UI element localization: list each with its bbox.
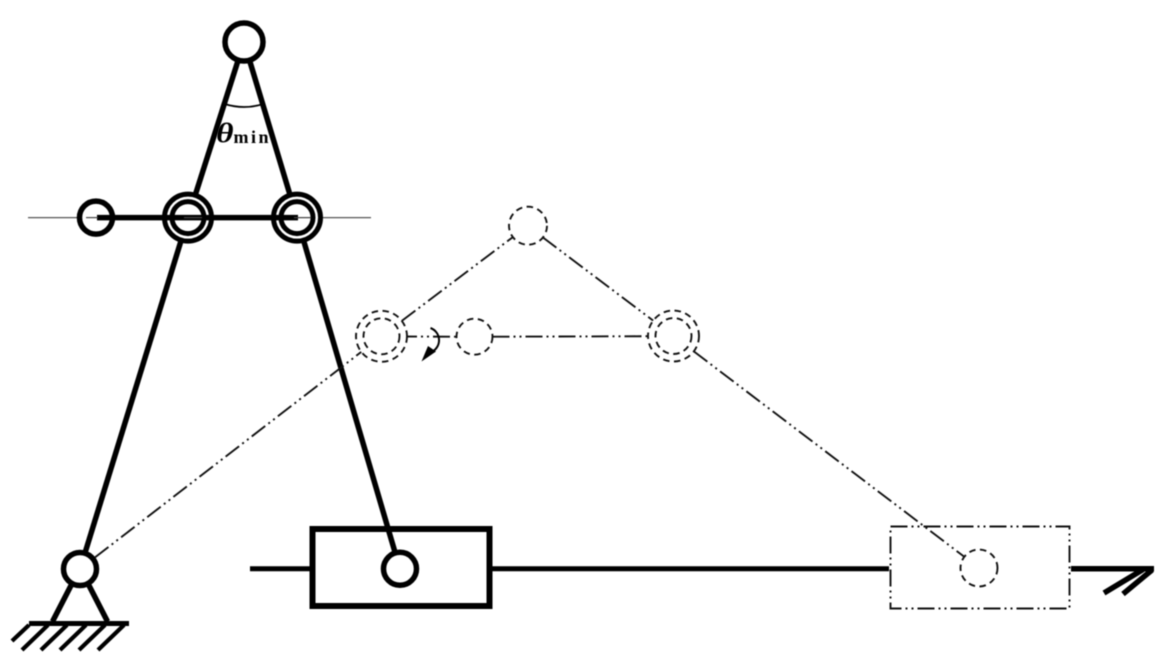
phantom slider pin joint circle — [961, 550, 998, 587]
joint L: small left joint circle — [80, 201, 113, 234]
phantom link: horizontal bar middle joint to right double joint — [493, 335, 656, 338]
link: right upper leg (apex to right double joint) — [250, 60, 291, 195]
link: left lower leg (left double joint to ground pivot) — [86, 241, 182, 552]
link: left upper leg (apex to left double joint) — [195, 60, 238, 196]
ground base line — [29, 621, 129, 626]
rotation arrow arc — [431, 328, 440, 352]
ground pivot joint circle — [64, 553, 97, 586]
phantom link: phantom left double joint to phantom apex — [402, 237, 513, 321]
slider rail middle segment — [492, 566, 889, 571]
slider block rectangle — [313, 529, 490, 606]
rotation arrow head — [422, 346, 437, 362]
link: right lower leg (right double joint to slider pin) — [304, 241, 395, 552]
slider pin joint circle — [384, 552, 417, 585]
ground pivot triangle right side — [89, 586, 108, 622]
right wall hatch stroke 2 — [1123, 570, 1152, 594]
phantom link: horizontal bar left double joint to middle joint — [400, 336, 457, 338]
ground pivot triangle left side — [53, 586, 72, 622]
center-line dash in small joint — [86, 217, 98, 219]
phantom slider block rectangle — [891, 527, 1070, 609]
phantom right double joint — [648, 311, 699, 362]
phantom link: right double joint to phantom slider pin — [694, 351, 965, 556]
center-line dash in right double joint — [294, 217, 311, 219]
angle label theta — [216, 118, 234, 149]
phantom link: ground pivot to phantom left double joint — [95, 352, 361, 558]
right wall hatch stroke 1 — [1104, 570, 1143, 594]
joint B1: left double revolute joint — [165, 194, 212, 241]
ground hatching — [12, 625, 124, 650]
angle arc at apex — [224, 104, 262, 107]
slider rail left segment — [250, 566, 310, 571]
phantom link: phantom apex to phantom right double joint — [543, 237, 653, 320]
horizontal center line through top joints — [28, 217, 371, 219]
center-line dash in left double joint — [184, 217, 202, 219]
phantom left double joint — [356, 311, 407, 362]
joint B2: right double revolute joint — [274, 194, 321, 241]
slider rail right segment — [1071, 566, 1154, 572]
phantom apex joint circle — [509, 207, 547, 245]
angle label min subscript — [234, 127, 272, 148]
phantom middle joint circle — [457, 319, 493, 355]
joint A: top revolute joint circle — [225, 23, 263, 61]
link: thick horizontal bar from small joint to right double joint — [97, 215, 298, 221]
